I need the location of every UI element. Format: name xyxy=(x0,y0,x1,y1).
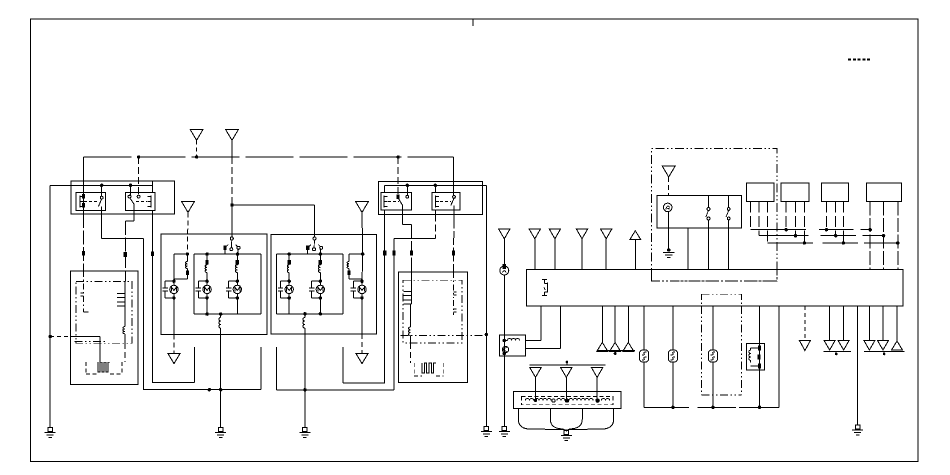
relay K2 contacts xyxy=(128,195,131,198)
connector triangle TE0 xyxy=(499,229,511,239)
condenser unit box left xyxy=(70,271,138,384)
left feed wire to ground G1 xyxy=(49,185,51,428)
wire S2 pin xyxy=(728,228,730,269)
unit A left leg xyxy=(194,347,196,382)
wire T2 to switch SW-A xyxy=(231,140,233,157)
wire MA1 to triangle T5 xyxy=(173,297,175,335)
driver transistor xyxy=(502,346,508,352)
connector triangle TE4 xyxy=(600,229,612,239)
bus wire inside right relay box xyxy=(385,184,487,186)
triangle pair T9 T10 xyxy=(829,306,831,341)
unit A internal bus xyxy=(194,253,261,255)
dash-dot link right xyxy=(401,335,487,337)
wire bus to relay K3 xyxy=(397,157,399,197)
motor MA1 xyxy=(172,280,175,283)
relay K1 internals xyxy=(83,181,85,214)
wire relay K4 switch to cond box xyxy=(452,214,455,272)
compressor module dash-dot box xyxy=(651,149,777,281)
junction A resistor tap xyxy=(219,312,222,315)
connector triangle T3 feed unit A xyxy=(182,201,195,212)
relay K3 contacts xyxy=(397,195,400,200)
junction rail B xyxy=(303,388,306,391)
unit B bottom bus xyxy=(276,313,342,315)
rail junction xyxy=(896,241,899,244)
motor MB3 feed xyxy=(361,254,364,282)
connector triangle T4 feed unit B xyxy=(356,201,369,212)
sensor ground triangles xyxy=(597,342,608,351)
rail R3 xyxy=(768,242,814,244)
junction A b1 xyxy=(205,252,208,255)
sub boundary inside ECU xyxy=(702,293,742,295)
switch SW-A xyxy=(230,237,233,240)
motor MB3 xyxy=(360,280,363,283)
connector bead w7 xyxy=(392,251,395,256)
unit A right leg xyxy=(260,347,262,390)
unit B internal bus xyxy=(276,253,342,255)
motor MB1 xyxy=(288,280,291,283)
relay K4 body xyxy=(432,193,460,210)
compressor clutch symbol xyxy=(663,203,672,212)
wire MB3 to triangle T6 xyxy=(361,297,363,334)
wire RA3 to ground G2 xyxy=(220,328,222,428)
connector triangle T6 xyxy=(356,354,368,364)
junction A b2 xyxy=(236,252,239,255)
connector bead w3 xyxy=(124,252,127,257)
wire S0 pin xyxy=(687,228,689,269)
wire relay K1 coil to heater box left pin xyxy=(83,214,85,271)
rail A upper xyxy=(152,381,195,383)
ECU control module box xyxy=(527,269,903,306)
motor MA1 feed xyxy=(173,254,175,282)
wire bus to relay K2 xyxy=(138,157,140,196)
wire MB2 to bus xyxy=(319,297,321,314)
connector triangle TE1 xyxy=(529,229,541,239)
ground G6 xyxy=(564,430,568,434)
solenoid return rail xyxy=(644,406,689,408)
junction B feed xyxy=(361,252,364,255)
motor MB2 xyxy=(319,280,322,283)
unit B right leg xyxy=(342,347,344,383)
rail junction xyxy=(842,241,845,244)
junction relay K2 feed xyxy=(129,184,132,187)
heater element left xyxy=(85,362,87,374)
resistor RB1 branch xyxy=(288,260,291,265)
wire relay K3 coil down xyxy=(384,214,386,383)
relay K4 coil xyxy=(435,196,437,208)
connector box CB2 xyxy=(781,183,809,201)
rail A lower xyxy=(143,389,261,391)
junction B b1 xyxy=(288,252,291,255)
junction cond box tap xyxy=(485,333,488,336)
junction T2 branch xyxy=(230,203,233,206)
ECU internal switch xyxy=(542,279,547,281)
wire ECU to relay driver box b xyxy=(560,306,562,349)
unit B inner box sides xyxy=(275,254,277,314)
ground G1 xyxy=(48,428,52,432)
revision dashes top right xyxy=(848,59,871,61)
relay K1 body xyxy=(76,193,106,211)
switch SW-B xyxy=(313,237,316,240)
wire relay K3 common to cond box xyxy=(401,210,403,225)
connector triangle TE5 up xyxy=(630,231,641,240)
ground G4 xyxy=(484,427,488,431)
relay K3 coil xyxy=(383,196,385,208)
relay assembly box right xyxy=(378,181,482,214)
junction on bus at x196.6 xyxy=(195,155,198,158)
unit B bus right segment xyxy=(349,253,363,255)
connector box CB4 xyxy=(867,183,902,201)
junction B resistor tap xyxy=(303,312,306,315)
resistor RA1 branch xyxy=(206,260,209,265)
fan motor unit B box xyxy=(271,234,376,334)
junction rail A xyxy=(219,388,222,391)
sensor connector inner xyxy=(522,397,613,405)
condenser right inner dash-dot box xyxy=(403,280,462,343)
top border tick xyxy=(472,19,474,26)
junction relay K3 contact feed xyxy=(406,184,409,187)
connector triangle T8 xyxy=(799,341,810,351)
wire through driver box xyxy=(503,335,505,356)
rail R1 xyxy=(751,229,806,231)
ground G5 xyxy=(502,427,506,431)
sensor coil chain xyxy=(525,399,533,401)
connector bead w5 xyxy=(383,251,386,256)
connector triangle T7 xyxy=(662,166,675,177)
resistor RA3 xyxy=(219,318,221,329)
driver resistor xyxy=(508,339,520,341)
resistor RL xyxy=(124,306,126,327)
connector bead w4 xyxy=(151,252,154,257)
relay K2 body xyxy=(125,193,155,211)
sensor wires xyxy=(535,377,537,400)
junction A feed xyxy=(186,252,189,255)
wire P1 to ground G5 xyxy=(503,275,505,427)
vsv dash-dot region xyxy=(701,306,703,395)
CB3 pin wires xyxy=(825,202,827,230)
rail junction xyxy=(834,234,837,237)
CB4 pin wires xyxy=(869,202,871,270)
rail junction xyxy=(794,234,797,237)
wire ECU to relay driver box a xyxy=(540,306,542,341)
motor MA3 xyxy=(236,280,239,283)
connector triangle T2 xyxy=(226,129,239,140)
wire S1 pin xyxy=(708,228,710,269)
CB1 pin wires xyxy=(750,202,752,230)
condenser left pin path xyxy=(83,271,85,312)
junction B b2 xyxy=(319,252,322,255)
connector bead w1 xyxy=(82,251,85,256)
condenser left inner dash-dot box xyxy=(76,282,132,344)
condenser right pin path xyxy=(452,272,454,298)
junction rail A lower xyxy=(208,388,211,391)
wire entry left xyxy=(50,336,70,338)
unit B left leg xyxy=(275,347,277,390)
ground G8 inside module xyxy=(668,228,670,250)
unit A bottom bus xyxy=(194,313,261,315)
compressor inner box xyxy=(657,195,742,228)
ground G2 xyxy=(219,428,223,432)
capacitor comb CR xyxy=(404,291,412,293)
wire ECU to ground G7 xyxy=(857,306,859,426)
rail junction xyxy=(882,234,885,237)
wire relay K2 common to heater box xyxy=(133,210,135,220)
wire MB1 to bus xyxy=(288,297,290,314)
resistor RB3 xyxy=(303,318,305,329)
CB2 pin wires xyxy=(785,202,787,230)
wire branch to switch SW-B xyxy=(232,204,315,206)
resistor RR xyxy=(410,304,412,327)
connector triangle T1 xyxy=(190,129,203,140)
wire MA3 to bus xyxy=(236,297,238,314)
wire bus end down to ground G4 xyxy=(485,185,487,427)
triangle trio T11-T13 xyxy=(868,306,870,341)
unit A bus left segment xyxy=(174,253,188,255)
junction on bus at x138.6 xyxy=(137,155,140,158)
rail junction xyxy=(869,228,872,231)
connector box CB3 xyxy=(821,183,848,201)
capacitor comb CL xyxy=(117,293,125,295)
wire relay K2 coil down xyxy=(152,214,154,382)
junction on bus at x398.1 xyxy=(396,155,399,158)
thermal switch S2 xyxy=(727,208,730,211)
heater element right xyxy=(413,363,415,376)
relay assembly box left xyxy=(71,181,175,214)
diode DA branch xyxy=(186,254,188,261)
connector box CB1 xyxy=(746,183,774,201)
pump motor symbol P1 xyxy=(500,266,509,275)
rail B lower xyxy=(276,389,394,391)
solenoid V1 xyxy=(643,306,645,350)
power bus wire y157 xyxy=(83,156,453,158)
connector triangle T5 xyxy=(168,354,180,364)
dash-dot link left xyxy=(75,341,105,343)
relay K4 contacts xyxy=(453,195,456,198)
sensor triangles xyxy=(530,367,542,377)
relay K2 coil xyxy=(150,196,152,208)
unit A inner box sides xyxy=(193,254,195,314)
wire relay K1 switch to rail xyxy=(101,214,103,239)
resistor RA2 branch xyxy=(236,260,239,265)
module boundary inside ECU xyxy=(650,269,652,281)
resistor RB2 branch xyxy=(319,260,322,265)
connector bead w6 xyxy=(410,251,413,256)
junction left feed xyxy=(49,335,52,338)
sensor connector box xyxy=(513,392,621,409)
connector triangle TE2 xyxy=(549,229,561,239)
ground G3 xyxy=(303,428,307,432)
motor MA2 xyxy=(205,280,208,283)
rail junction xyxy=(803,241,806,244)
diode DB branch xyxy=(348,254,350,261)
rail B upper xyxy=(343,382,385,384)
relay K1 coil xyxy=(79,196,81,208)
sensor drain wires xyxy=(518,409,566,430)
wire dashed to triangle T8 xyxy=(804,306,806,341)
fan motor unit A box xyxy=(161,234,267,335)
wire bus to relay K1 xyxy=(82,157,84,193)
rail junction xyxy=(825,228,828,231)
rail R2 xyxy=(759,235,809,237)
diode box D2 xyxy=(747,343,765,370)
ground G7 xyxy=(855,425,859,429)
connector triangle TE3 xyxy=(576,229,588,239)
junction relay K1 switch feed xyxy=(100,184,103,187)
condenser unit box right xyxy=(399,272,468,383)
driver box xyxy=(500,335,526,356)
sensor feed bar xyxy=(529,364,605,366)
thermal switch S1 xyxy=(707,208,710,211)
solenoid V3 xyxy=(712,306,714,350)
bus wire inside left relay box xyxy=(50,184,152,186)
relay K3 body xyxy=(381,193,412,210)
connector bead w8 xyxy=(452,251,455,256)
wire relay K4 coil to rail xyxy=(434,214,436,238)
junction relay K4 coil feed xyxy=(434,184,437,187)
rail junction xyxy=(785,228,788,231)
wire RB3 to ground G3 xyxy=(304,328,306,428)
wire MA2 to bus xyxy=(206,297,208,314)
solenoid V2 xyxy=(672,306,674,350)
